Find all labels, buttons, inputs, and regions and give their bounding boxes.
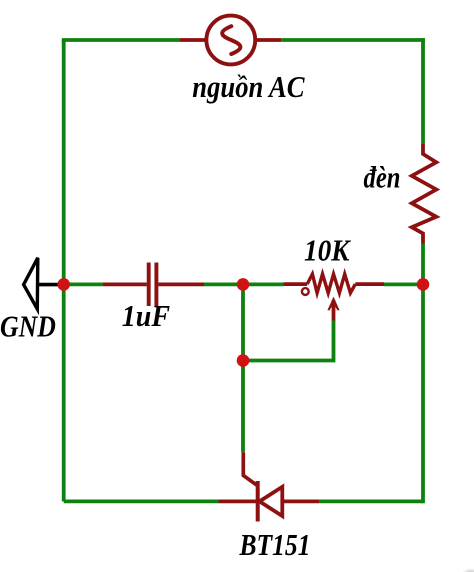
node junction center — [237, 278, 250, 291]
wire: left vertical net — [62, 40, 66, 501]
wire: center vertical node-to-node segment — [241, 284, 245, 360]
potentiometer RV1 lead left — [284, 282, 308, 286]
svg-text:10K: 10K — [304, 233, 352, 267]
svg-text:1uF: 1uF — [122, 299, 170, 333]
wire: top horizontal left segment — [62, 38, 180, 42]
thyristor BT151 triangle — [260, 487, 283, 516]
thyristor BT151 cathode bar — [256, 481, 260, 522]
potentiometer RV1 wiper arrowhead — [327, 297, 339, 311]
potentiometer RV1 zigzag — [307, 274, 355, 293]
node junction wiper — [237, 354, 250, 367]
wire: right vertical upper segment — [421, 38, 425, 144]
potentiometer RV1 wiper arrowhead notch — [330, 304, 338, 311]
capacitor C1 lead right — [158, 282, 204, 286]
AC source U1 lead right — [256, 38, 282, 42]
wire: middle horizontal pot-to-right segment — [384, 282, 423, 286]
thyristor BT151 cathode lead — [282, 499, 319, 503]
svg-text:nguồn AC: nguồn AC — [192, 70, 305, 104]
AC source U1 lead left — [179, 38, 206, 42]
AC source U1 sine glyph — [222, 26, 240, 54]
potentiometer RV1 lead right — [355, 282, 384, 286]
wire: middle horizontal GND-to-capacitor segment — [64, 282, 103, 286]
svg-text:đèn: đèn — [364, 161, 401, 195]
capacitor C1 lead left — [103, 282, 147, 286]
watermark smudge bottom-right — [0, 0, 1, 1]
wire: top horizontal right segment — [281, 38, 425, 42]
resistor đèn (lamp) zigzag — [412, 144, 437, 244]
wire: bottom horizontal left segment — [64, 499, 219, 503]
thyristor BT151 gate lead — [243, 452, 257, 486]
svg-text:GND: GND — [0, 309, 56, 343]
wire: middle horizontal capacitor-to-node segment — [204, 282, 284, 286]
wire: bottom horizontal right segment — [319, 499, 423, 503]
thyristor BT151 anode lead — [219, 499, 258, 503]
AC source U1 circle — [206, 16, 255, 65]
wire: right vertical lower segment — [421, 244, 425, 504]
wire: wiper branch down-and-left — [243, 321, 334, 361]
wire: center vertical node-to-gate segment — [241, 361, 245, 453]
potentiometer RV1 wiper stem — [332, 300, 336, 321]
node junction right — [417, 278, 430, 291]
svg-text:BT151: BT151 — [239, 528, 311, 562]
node junction left — [57, 278, 70, 291]
ground lead — [38, 283, 64, 287]
ground symbol arrow — [24, 258, 38, 309]
capacitor C1 plate left — [147, 263, 151, 307]
capacitor C1 plate right — [154, 263, 158, 307]
potentiometer RV1 terminal circle — [302, 288, 309, 295]
